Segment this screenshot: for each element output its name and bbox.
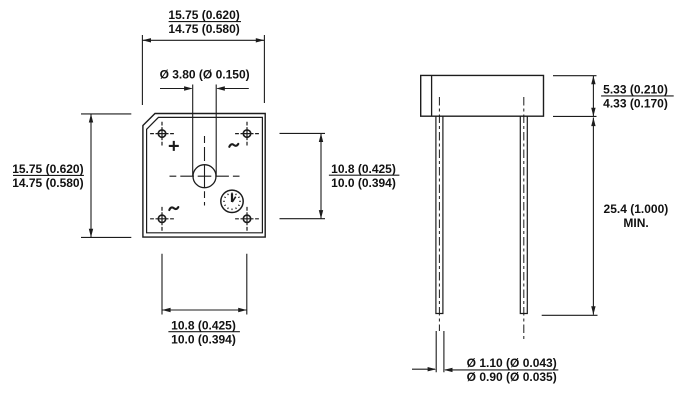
svg-text:15.75 (0.620): 15.75 (0.620) xyxy=(168,8,239,22)
pin 1 (+) crosshair circle top-left xyxy=(150,122,174,146)
body height dimension line xyxy=(592,76,594,117)
side view chamfer edge line xyxy=(431,75,433,116)
dim text: right pin spacing xyxy=(331,162,396,190)
svg-text:14.75 (0.580): 14.75 (0.580) xyxy=(168,22,239,36)
left lead xyxy=(436,116,443,313)
svg-text:Ø 3.80 (Ø 0.150): Ø 3.80 (Ø 0.150) xyxy=(160,67,250,81)
pin 3 (~) crosshair circle bottom-left xyxy=(150,207,174,231)
fraction line bottom pin spacing xyxy=(168,331,240,333)
bottom pin-spacing dimension line xyxy=(162,309,247,311)
hole edge projection lines xyxy=(193,85,217,177)
pin 2 (~) crosshair circle top-right xyxy=(235,122,259,146)
top width dimension extension line right xyxy=(263,35,265,103)
svg-text:4.33 (0.170): 4.33 (0.170) xyxy=(603,97,668,111)
top width dim arrowheads xyxy=(142,38,264,42)
left height dimension line xyxy=(90,114,92,237)
svg-text:10.8 (0.425): 10.8 (0.425) xyxy=(171,318,236,332)
right pin-spacing extension lines xyxy=(280,133,326,218)
svg-text:Ø 1.10 (Ø 0.043): Ø 1.10 (Ø 0.043) xyxy=(467,356,557,370)
package outline outer (top view) xyxy=(143,114,265,238)
svg-text:14.75 (0.580): 14.75 (0.580) xyxy=(12,176,83,190)
dim text: body height xyxy=(603,83,668,111)
svg-text:15.75 (0.620): 15.75 (0.620) xyxy=(12,162,83,176)
dim text: left height xyxy=(12,162,83,190)
svg-text:25.4 (1.000): 25.4 (1.000) xyxy=(604,202,669,216)
lead dia extension lines xyxy=(436,331,444,372)
fraction line left height xyxy=(13,174,84,176)
dim text: lead length min xyxy=(604,202,669,230)
hole dia dimension: right leader arrow xyxy=(217,88,248,90)
tilde AC mark top-right xyxy=(229,144,238,147)
right lead centerline xyxy=(523,97,525,342)
left height dimension extension lines xyxy=(81,114,131,237)
dim text: bottom pin spacing xyxy=(171,318,236,346)
hole dia dimension: left leader arrow xyxy=(160,88,192,90)
svg-text:10.0 (0.394): 10.0 (0.394) xyxy=(331,176,396,190)
lead dia left leader arrow xyxy=(412,368,435,370)
lead end extension line xyxy=(542,314,598,316)
svg-text:10.0 (0.394): 10.0 (0.394) xyxy=(171,332,236,346)
side view body xyxy=(421,75,544,116)
right lead xyxy=(520,116,527,313)
svg-text:10.8 (0.425): 10.8 (0.425) xyxy=(331,162,396,176)
svg-text:5.33 (0.210): 5.33 (0.210) xyxy=(603,83,668,97)
lead length dimension line xyxy=(592,118,594,315)
left lead centerline xyxy=(438,97,440,331)
plus polarity mark xyxy=(169,141,179,151)
dim text: lead dia xyxy=(467,356,557,384)
hole centerline vertical xyxy=(204,136,206,206)
pin 4 crosshair circle bottom-right xyxy=(235,207,259,231)
top width dimension extension line left xyxy=(141,35,143,105)
center mounting hole xyxy=(193,165,216,188)
right pin-spacing dimension line xyxy=(320,133,322,218)
tilde AC mark bottom-left xyxy=(169,207,178,210)
svg-text:MIN.: MIN. xyxy=(623,216,648,230)
fraction line right pin spacing xyxy=(329,174,400,176)
bottom pin-spacing extension lines xyxy=(162,254,247,315)
lead dia right leader / fraction bar xyxy=(445,369,558,371)
hole centerline horizontal xyxy=(170,175,240,177)
logo circle (clock) xyxy=(221,190,243,212)
dim text: top width xyxy=(168,8,239,36)
fraction line body height xyxy=(601,95,674,97)
svg-text:Ø 0.90 (Ø 0.035): Ø 0.90 (Ø 0.035) xyxy=(467,370,557,384)
body height extension lines xyxy=(553,76,597,117)
top width dimension line xyxy=(142,39,264,41)
fraction line top width xyxy=(169,21,241,23)
package outline inner (top view) xyxy=(147,117,263,232)
